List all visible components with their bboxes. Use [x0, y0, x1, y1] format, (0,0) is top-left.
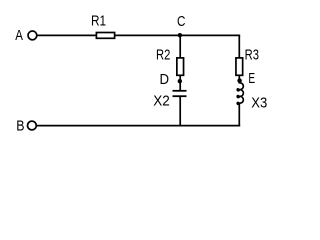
terminal A: [28, 31, 37, 40]
wire R1 to corner: [115, 34, 241, 36]
wire inductor to bottom corner: [238, 103, 240, 126]
bottom wire: [36, 125, 240, 127]
svg-text:B: B: [16, 118, 24, 134]
svg-text:D: D: [160, 71, 170, 88]
svg-text:X2: X2: [153, 92, 170, 108]
wire capacitor to bottom: [179, 96, 181, 125]
resistor R1: [96, 33, 114, 39]
node C: [178, 33, 182, 37]
wire R2 to capacitor: [179, 75, 181, 91]
wire R3 to inductor: [238, 75, 240, 83]
wire node C down to R2: [179, 35, 181, 58]
node E: [237, 78, 242, 83]
svg-text:E: E: [248, 70, 255, 86]
svg-text:C: C: [177, 13, 185, 29]
capacitor X2 bottom plate: [173, 95, 187, 97]
svg-text:R1: R1: [91, 13, 106, 29]
terminal B: [28, 121, 37, 130]
capacitor X2 top plate: [173, 90, 187, 92]
resistor R3: [236, 58, 243, 75]
inductor X3: [237, 83, 243, 104]
svg-text:A: A: [15, 27, 23, 44]
node D: [178, 79, 182, 83]
svg-text:R2: R2: [156, 46, 170, 63]
svg-text:X3: X3: [251, 95, 267, 111]
resistor R2: [177, 58, 184, 75]
wire corner down to R3: [238, 35, 240, 58]
wire A to R1: [37, 34, 96, 36]
svg-text:R3: R3: [245, 46, 259, 63]
